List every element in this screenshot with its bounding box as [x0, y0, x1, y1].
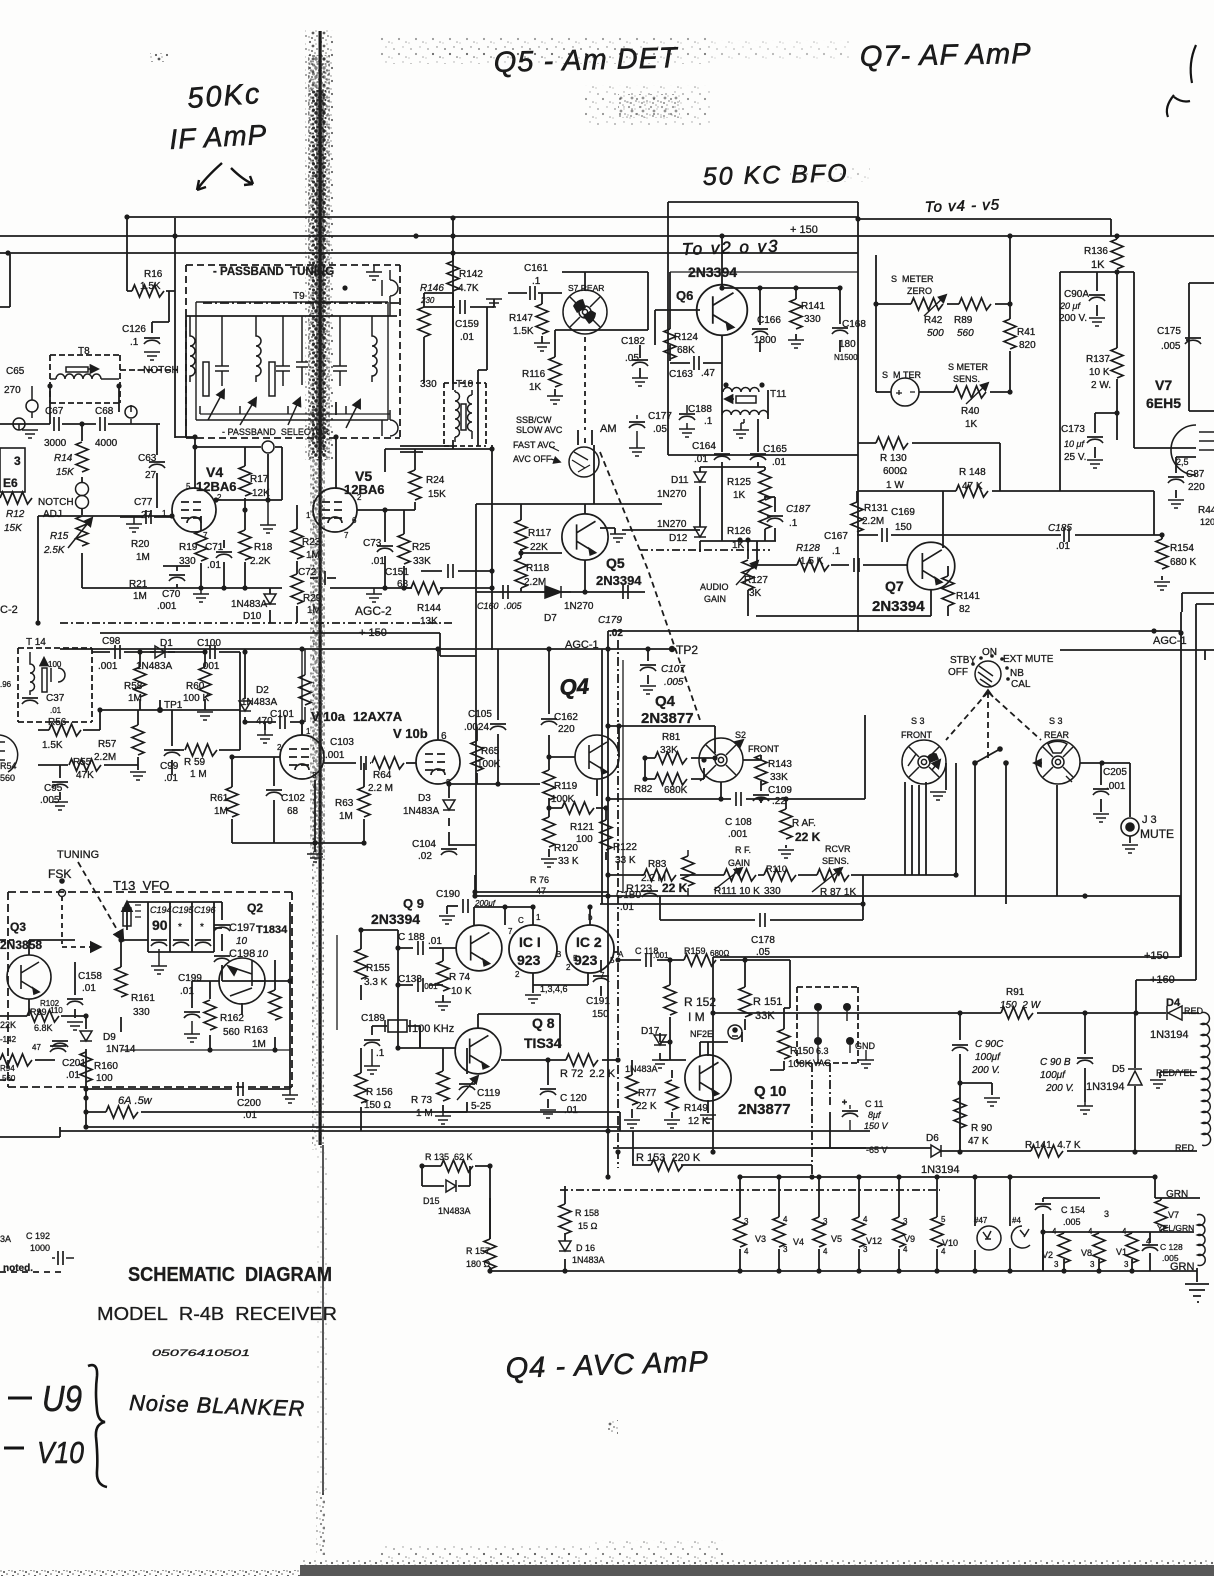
- wire y784 link: [449, 783, 540, 785]
- ground C199: [184, 1034, 200, 1042]
- wire S7 dashes: [584, 337, 586, 445]
- wire noise blanker dashed box: [0, 940, 14, 1080]
- wire detector out y530: [622, 529, 700, 531]
- wire x297 column V5 left: [296, 505, 298, 623]
- wire x475 drop: [474, 875, 476, 896]
- svg-text:- NOTCH: - NOTCH: [137, 365, 179, 376]
- capacitor C180: [642, 891, 658, 897]
- resistor R81: [655, 752, 687, 764]
- svg-text:+ 150: + 150: [790, 224, 818, 236]
- svg-text:33K: 33K: [770, 772, 788, 783]
- wire T10 dashed box: [444, 383, 486, 446]
- svg-text:ZERO: ZERO: [907, 286, 932, 296]
- svg-text:2: 2: [277, 743, 282, 752]
- svg-text:R117: R117: [528, 528, 552, 539]
- heater resistor V5: [813, 1217, 825, 1247]
- resistor RAF: [780, 809, 792, 839]
- wire y896 long row: [475, 895, 1181, 897]
- ground C90B: [1077, 1106, 1093, 1114]
- svg-text:22 K: 22 K: [795, 830, 821, 844]
- wire R94 row y1060: [0, 1059, 55, 1061]
- heater resistor V4: [773, 1217, 785, 1247]
- svg-text:D10: D10: [243, 611, 262, 622]
- wire x608 long vertical: [607, 631, 609, 1177]
- svg-text:GAIN: GAIN: [704, 594, 726, 604]
- svg-text:C105: C105: [468, 709, 492, 720]
- svg-text:.1: .1: [789, 518, 798, 529]
- svg-text:C102: C102: [281, 793, 305, 804]
- wire R18 x245: [244, 510, 246, 588]
- svg-text:Q6: Q6: [676, 288, 693, 303]
- wire VFO top row y902: [127, 902, 222, 920]
- svg-text:C197: C197: [229, 922, 255, 934]
- svg-text:C187: C187: [786, 504, 810, 515]
- resistor R59: [185, 744, 217, 756]
- capacitor C194: [151, 940, 167, 946]
- svg-text:.47: .47: [701, 368, 715, 379]
- svg-text:S2: S2: [735, 730, 746, 740]
- svg-text:Q 8: Q 8: [532, 1015, 555, 1031]
- wire R121 row y808: [549, 807, 606, 809]
- svg-text:.01: .01: [1056, 541, 1070, 552]
- resistor R141-330: [790, 299, 802, 329]
- capacitor C98: [115, 645, 120, 659]
- wire R153 row y1165: [632, 1131, 812, 1165]
- svg-text:560: 560: [223, 1027, 240, 1038]
- svg-text:C 90C: C 90C: [975, 1039, 1004, 1050]
- svg-text:NB: NB: [1010, 668, 1024, 679]
- wire C165 x758: [757, 462, 759, 467]
- svg-text:180 Ω: 180 Ω: [466, 1259, 491, 1269]
- ground C95: [52, 802, 68, 810]
- tube V4: [172, 488, 216, 532]
- svg-text:TP2: TP2: [676, 643, 698, 657]
- svg-text:.01: .01: [694, 454, 708, 465]
- lamp 47 a: [977, 1226, 1001, 1250]
- svg-text:C: C: [518, 916, 524, 925]
- svg-text:C1B0: C1B0: [616, 890, 641, 901]
- transistor Q2: [219, 958, 265, 1004]
- avc labels arrows: [549, 446, 560, 462]
- wire R65 x477: [476, 727, 478, 784]
- svg-text:R144: R144: [417, 603, 441, 614]
- capacitor C73: [377, 546, 393, 552]
- IC2: [566, 925, 614, 973]
- wire R41 x1010: [1009, 236, 1011, 392]
- svg-text:C159: C159: [455, 319, 479, 330]
- svg-text:R155: R155: [366, 963, 390, 974]
- svg-text:R44: R44: [1198, 505, 1214, 516]
- svg-text:C77: C77: [134, 497, 153, 508]
- ground C182: [632, 378, 648, 386]
- annotation arrows: [197, 163, 222, 190]
- wire node A row y960: [618, 959, 790, 961]
- wire x490 drop: [489, 1166, 491, 1271]
- svg-text:1K: 1K: [965, 419, 978, 430]
- wire V5 top feeds: [335, 402, 337, 489]
- capacitor C100: [210, 645, 215, 659]
- wire y875 pots row: [608, 874, 956, 876]
- diode D7 black: [530, 586, 571, 598]
- svg-text:3.3 K: 3.3 K: [364, 977, 388, 988]
- svg-text:AGC-1: AGC-1: [1153, 635, 1187, 647]
- svg-text:1N3194: 1N3194: [1086, 1081, 1125, 1093]
- wire R128 C167 row y565: [757, 541, 907, 565]
- tube V3 partial box: [0, 448, 25, 492]
- svg-text:6.3: 6.3: [816, 1046, 829, 1056]
- capacitor C71: [216, 552, 232, 558]
- transistor Q6: [697, 285, 748, 336]
- svg-text:V4: V4: [206, 464, 223, 480]
- wire V2 V8 V1 row y1252: [1043, 1232, 1128, 1271]
- avc rotary wafer: [569, 447, 599, 477]
- wire slug arrow x127: [126, 902, 128, 930]
- svg-text:T1834: T1834: [256, 924, 288, 936]
- svg-text:.1: .1: [532, 276, 541, 287]
- svg-text:1K: 1K: [1091, 259, 1105, 271]
- wire R119 x549: [548, 757, 550, 808]
- svg-text:.01: .01: [180, 986, 194, 997]
- svg-text:R 158: R 158: [575, 1208, 599, 1218]
- svg-text:E6: E6: [3, 476, 18, 490]
- wire coil2 bottom gnd: [1196, 1268, 1198, 1282]
- svg-text:C196: C196: [194, 905, 216, 915]
- svg-text:C 120: C 120: [560, 1093, 587, 1104]
- svg-text:V3: V3: [755, 1234, 766, 1244]
- svg-text:R20: R20: [131, 539, 150, 550]
- svg-text:D4: D4: [1166, 997, 1181, 1009]
- svg-text:C67: C67: [45, 406, 64, 417]
- resistor R142: [447, 261, 459, 291]
- svg-text:V1: V1: [1116, 1247, 1127, 1257]
- svg-text:1N3194: 1N3194: [1150, 1029, 1189, 1041]
- capacitor C173: [1087, 437, 1103, 443]
- wire R24 x415: [414, 449, 416, 510]
- resistor R56: [49, 724, 81, 736]
- svg-text:R 151: R 151: [753, 996, 782, 1008]
- svg-text:.05: .05: [625, 353, 639, 364]
- resistor R120: [543, 817, 555, 847]
- svg-text:R118: R118: [526, 563, 550, 574]
- svg-text:6: 6: [352, 516, 357, 525]
- svg-text:1K: 1K: [733, 490, 746, 501]
- svg-text:33K: 33K: [413, 556, 431, 567]
- svg-text:C72: C72: [298, 567, 317, 578]
- capacitor C190: [463, 899, 468, 913]
- svg-text:C107: C107: [661, 664, 685, 675]
- resistor R160: [80, 1052, 92, 1082]
- wire C175 stub: [1186, 339, 1189, 341]
- resistor R41: [1004, 319, 1016, 349]
- capacitor C163: [694, 356, 699, 370]
- ground R60: [197, 712, 213, 720]
- svg-text:10 K: 10 K: [451, 986, 472, 997]
- svg-text:2N3394: 2N3394: [371, 911, 420, 927]
- wire C73 stub: [384, 510, 386, 588]
- wire R146 x424: [424, 293, 453, 383]
- wire R25 x404: [403, 510, 405, 588]
- resistor R131: [851, 502, 863, 532]
- tube V5: [313, 488, 357, 532]
- svg-text:C 90 B: C 90 B: [1040, 1057, 1071, 1068]
- svg-text:500: 500: [927, 328, 944, 339]
- svg-text:.05: .05: [653, 424, 667, 435]
- ground C90C branch: [984, 1098, 1000, 1106]
- rotary switch S2: [699, 738, 743, 782]
- wire R147 x542: [541, 293, 543, 343]
- wire V4 screen y500: [216, 454, 282, 500]
- resistor R91: [1001, 1007, 1033, 1019]
- transformer T10 coils: [455, 390, 472, 442]
- svg-text:150 V: 150 V: [864, 1121, 889, 1131]
- tube V10b: [416, 740, 460, 784]
- heater resistor V10: [931, 1217, 943, 1247]
- ground screen: [260, 525, 276, 533]
- svg-text:C126: C126: [122, 324, 146, 335]
- svg-text:R149: R149: [684, 1103, 708, 1114]
- capacitor C11: [842, 1111, 858, 1117]
- lamp NE2E: [728, 1025, 742, 1039]
- svg-text:A: A: [618, 950, 624, 959]
- wire Q7 base stub: [906, 565, 908, 566]
- ground C200: [282, 1095, 298, 1103]
- svg-text:100 KHz: 100 KHz: [412, 1023, 454, 1035]
- crystal 100khz: [385, 1020, 410, 1032]
- svg-text:C100: C100: [197, 638, 221, 649]
- node FSK terminal: [59, 890, 66, 897]
- resistor R147: [536, 304, 548, 334]
- svg-text:D15: D15: [423, 1196, 440, 1206]
- svg-text:R150: R150: [790, 1046, 814, 1057]
- capacitor C162: [541, 719, 557, 725]
- wire heater bus dashes left: [0, 1271, 64, 1273]
- diode D15: [446, 1180, 456, 1192]
- svg-text:C165: C165: [763, 444, 787, 455]
- svg-text:330: 330: [804, 314, 821, 325]
- svg-text:2N3877: 2N3877: [641, 710, 694, 727]
- svg-text:.01: .01: [66, 1070, 80, 1081]
- wire T8 row y424: [0, 423, 160, 425]
- wire D9 x86: [85, 1016, 87, 1089]
- svg-text:1M: 1M: [307, 605, 321, 616]
- wire R124 x670: [669, 272, 671, 361]
- node dots: [124, 214, 129, 219]
- wire R74 x443: [442, 948, 444, 1002]
- svg-text:1N483A: 1N483A: [403, 806, 439, 817]
- svg-text:R125: R125: [727, 477, 751, 488]
- svg-text:1K: 1K: [732, 540, 745, 551]
- svg-text:-65 V: -65 V: [866, 1145, 888, 1155]
- svg-text:7: 7: [344, 531, 349, 540]
- svg-text:3K: 3K: [749, 588, 762, 599]
- svg-text:V5: V5: [831, 1234, 842, 1244]
- wire y447 terminal row: [195, 447, 282, 500]
- svg-text:R154: R154: [1170, 543, 1194, 554]
- wire FSK dash: [61, 896, 63, 944]
- wire C168 x840: [839, 288, 841, 352]
- svg-text:b: b: [588, 913, 593, 922]
- capacitor C187: [767, 516, 783, 522]
- tube V7 partial: [1171, 425, 1214, 475]
- svg-text:2.2M: 2.2M: [94, 752, 116, 763]
- wire C102 x274: [273, 757, 275, 843]
- svg-text:100: 100: [48, 660, 62, 669]
- capacitor C70: [169, 575, 185, 581]
- wire D1 row: [150, 651, 175, 653]
- svg-text:- PASSBAND TUNING: - PASSBAND TUNING: [213, 266, 334, 278]
- svg-text:1N483A: 1N483A: [241, 697, 277, 708]
- ground R77: [624, 1120, 640, 1128]
- svg-text:C63: C63: [138, 453, 157, 464]
- wire C104 x449: [449, 832, 476, 845]
- svg-text:R18: R18: [254, 542, 273, 553]
- wire RED/YEL row y1072: [1160, 1072, 1197, 1078]
- svg-text:27: 27: [141, 510, 153, 521]
- svg-text:C70: C70: [162, 589, 181, 600]
- ground IC1: [525, 995, 541, 1003]
- wire Q3 collector: [29, 940, 75, 955]
- svg-text:C162: C162: [554, 712, 578, 723]
- svg-text:D11: D11: [671, 475, 689, 486]
- resistor R65: [471, 741, 483, 771]
- wire C70 stub: [163, 566, 190, 588]
- svg-text:15 Ω: 15 Ω: [578, 1221, 598, 1231]
- capacitor C128: [1142, 1245, 1158, 1251]
- wire Q2 base left: [192, 981, 220, 1008]
- resistor R15 pot: [76, 516, 88, 546]
- svg-text:2 W.: 2 W.: [1091, 380, 1111, 391]
- resistor R116: [549, 357, 561, 387]
- svg-text:25 V.: 25 V.: [1064, 452, 1086, 463]
- svg-text:.01: .01: [243, 1110, 257, 1121]
- wire y592 line: [476, 591, 645, 593]
- svg-text:.001: .001: [157, 601, 177, 612]
- wire R125 R126 x765: [764, 496, 766, 541]
- ground V5 cathode: [366, 594, 382, 602]
- capacitor C185: [1064, 528, 1069, 542]
- wire BFO collector rail y288: [722, 287, 840, 289]
- capacitor C161: [530, 286, 535, 300]
- svg-text:100K: 100K: [788, 1059, 812, 1070]
- diode D3: [443, 800, 455, 810]
- svg-text:R 130: R 130: [880, 453, 907, 464]
- wire R120 x549: [548, 808, 550, 857]
- svg-text:7: 7: [508, 927, 513, 936]
- svg-text:150 Ω: 150 Ω: [364, 1100, 391, 1111]
- capacitor C177: [629, 422, 645, 428]
- tube V10a: [280, 735, 324, 779]
- svg-text:2N3394: 2N3394: [688, 264, 737, 280]
- wire corner boxes right: [1182, 593, 1214, 612]
- wire top bus y217: [127, 216, 858, 218]
- wire R142 x453: [452, 253, 454, 383]
- resistor R136: [1111, 239, 1123, 269]
- ground T9 top: [366, 272, 382, 280]
- svg-text:R60: R60: [186, 681, 205, 692]
- svg-text:100 K: 100 K: [183, 693, 209, 704]
- svg-text:R25: R25: [412, 542, 431, 553]
- svg-text:.005: .005: [504, 601, 523, 611]
- svg-text:C201: C201: [62, 1058, 86, 1069]
- svg-text:GAIN: GAIN: [728, 858, 750, 868]
- svg-text:47 K: 47 K: [968, 1136, 989, 1147]
- ground GND plug: [858, 1060, 874, 1068]
- ground cathode V4: [193, 594, 209, 602]
- vfo slug tuning: [123, 908, 131, 926]
- svg-text:2,5: 2,5: [1176, 457, 1189, 467]
- resistor R163: [269, 990, 281, 1020]
- svg-text:200 V.: 200 V.: [971, 1065, 1000, 1076]
- svg-text:680Ω: 680Ω: [710, 949, 729, 958]
- resistor R141-47: [1031, 1145, 1063, 1157]
- svg-text:D 16: D 16: [576, 1243, 595, 1253]
- ground R154: [1154, 582, 1170, 590]
- wire heater right drops: [1064, 1232, 1132, 1271]
- resistor R123: [644, 869, 676, 881]
- ground C173: [1087, 460, 1103, 468]
- svg-text:1N3194: 1N3194: [921, 1164, 960, 1176]
- svg-text:68: 68: [287, 806, 299, 817]
- wire S3 rear right: [1057, 763, 1130, 896]
- svg-text:1000: 1000: [30, 1243, 50, 1253]
- svg-text:8μf: 8μf: [868, 1110, 882, 1120]
- transformer T9 coils: [190, 270, 398, 436]
- svg-text:R110: R110: [766, 864, 787, 874]
- wire left drop x127: [126, 217, 128, 291]
- resistor R72: [566, 1054, 598, 1066]
- svg-text:C138: C138: [398, 974, 422, 985]
- heater resistor V2: [1058, 1233, 1070, 1263]
- capacitor C191: [593, 976, 609, 982]
- bottom page edge dark band: [300, 1565, 1214, 1576]
- resistor R121: [562, 802, 594, 814]
- svg-text:To v2 o v3: To v2 o v3: [681, 237, 779, 259]
- wire y504 line: [476, 503, 662, 505]
- svg-text:R141: R141: [956, 591, 980, 602]
- svg-text:STBY: STBY: [950, 655, 976, 666]
- svg-text:R111 10 K: R111 10 K: [714, 886, 760, 897]
- capacitor C101: [280, 715, 285, 729]
- resistor R158: [559, 1204, 571, 1234]
- svg-text:47K: 47K: [76, 770, 94, 781]
- wire +150 row y957: [713, 896, 1180, 957]
- svg-text:C205: C205: [1103, 767, 1127, 778]
- svg-text:R54: R54: [0, 761, 17, 771]
- svg-text:C164: C164: [692, 441, 716, 452]
- wire C128 x1150: [1149, 1232, 1151, 1271]
- transistor Q7: [907, 542, 955, 590]
- wire det rail y467: [700, 467, 765, 470]
- svg-text:C109: C109: [768, 785, 792, 796]
- wire R82 row y779: [645, 758, 704, 779]
- terminal circle left a: [26, 400, 38, 412]
- svg-text:22K: 22K: [530, 542, 548, 553]
- wire T8 dashed box: [50, 355, 120, 403]
- wire C205 x1101: [1100, 763, 1102, 812]
- svg-text:*: *: [200, 922, 204, 933]
- ground RAF: [778, 850, 794, 858]
- svg-text:1,3,4,6: 1,3,4,6: [540, 984, 568, 994]
- ground C87: [1168, 500, 1184, 508]
- wire R55 row y765: [38, 764, 138, 766]
- diode D5: [1128, 1069, 1142, 1085]
- svg-text:600Ω: 600Ω: [883, 466, 908, 477]
- svg-text:R137: R137: [1086, 354, 1110, 365]
- svg-text:3: 3: [903, 1217, 908, 1226]
- svg-text:FRONT: FRONT: [901, 730, 932, 740]
- wire VFO cap bank frame: [148, 902, 214, 952]
- svg-text:.001: .001: [728, 829, 748, 840]
